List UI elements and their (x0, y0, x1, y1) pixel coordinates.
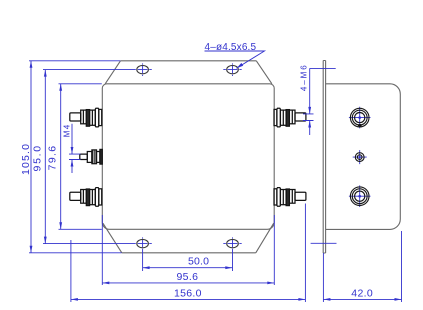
dim line 50.0 (143, 267, 233, 269)
svg-text:105.0: 105.0 (20, 144, 32, 175)
connector small middle (side view) (355, 153, 364, 162)
terminal small middle-left (M4) (80, 149, 103, 164)
svg-text:95.0: 95.0 (32, 146, 44, 172)
extension line tab bottom (29, 252, 122, 254)
slot centerline top-right (223, 63, 241, 76)
extension 42 right (401, 231, 403, 302)
dim line 42.0 (323, 298, 401, 300)
terminal large bottom-left (M6) (70, 188, 102, 207)
50.0 arrows (143, 266, 150, 269)
M4 dim legs (69, 124, 81, 173)
svg-text:95.6: 95.6 (176, 271, 198, 283)
filter body (102, 84, 274, 230)
dim line 156.0 (71, 298, 306, 300)
side view hole centerline top (310, 67, 336, 69)
crosshair bottom connector (349, 185, 371, 207)
extension 42 left (322, 253, 324, 302)
dim line 95.6 (102, 282, 274, 284)
extension 95.6 left (101, 215, 103, 285)
dim line 79.6 (60, 84, 62, 230)
156.0 arrows (71, 298, 78, 301)
side body (326, 84, 401, 230)
95.6 arrows (102, 282, 109, 285)
svg-text:4–ø4.5x6.5: 4–ø4.5x6.5 (205, 42, 257, 53)
4-M6 dim legs (303, 68, 314, 135)
extension 95.6 right (273, 215, 275, 285)
42.0 arrows (323, 298, 330, 301)
mounting slot bottom-right (227, 239, 239, 247)
svg-text:M4: M4 (63, 124, 72, 137)
bottom mounting tab (103, 223, 274, 253)
svg-text:42.0: 42.0 (351, 288, 373, 300)
side view hole centerline bottom (311, 242, 337, 244)
leader 4-o4.5x6.5 (205, 51, 265, 68)
terminal large bottom-right (M6) (274, 188, 306, 207)
79.6 arrows (59, 84, 62, 91)
terminal large top-right (M6) (274, 108, 306, 127)
extension 156 left (70, 240, 72, 302)
mounting slot top-right (227, 65, 239, 73)
slot centerline bottom-right (223, 237, 241, 271)
svg-text:79.6: 79.6 (47, 146, 59, 171)
connector circle top (side view) (350, 108, 369, 127)
mounting slot top-left (137, 65, 149, 73)
crosshair middle connector (353, 150, 367, 164)
side flange plate (323, 61, 325, 254)
slot centerline top-left (43, 63, 152, 76)
95.0 arrows (44, 70, 47, 77)
105.0 arrows (30, 61, 33, 68)
svg-text:156.0: 156.0 (174, 287, 202, 299)
dim line 105.0 (30, 61, 32, 253)
extension 156 right (304, 204, 306, 303)
extension line body bottom (59, 228, 102, 230)
4-M6 arrows (308, 107, 311, 114)
connector circle bottom (side view) (350, 187, 369, 206)
terminal large top-left (M6) (70, 108, 102, 127)
slot centerline bottom-left (43, 237, 152, 271)
svg-text:50.0: 50.0 (188, 255, 209, 267)
dim line 95.0 (44, 70, 46, 244)
M4 arrows (71, 147, 74, 154)
arrowheads (30, 61, 402, 301)
extension line body top (59, 83, 102, 85)
crosshair top connector (349, 107, 371, 129)
mounting slot bottom-left (137, 239, 149, 247)
leader arrow (237, 63, 244, 68)
svg-text:4–M6: 4–M6 (300, 65, 309, 91)
extension line tab top (29, 60, 120, 62)
top mounting tab (105, 61, 272, 84)
